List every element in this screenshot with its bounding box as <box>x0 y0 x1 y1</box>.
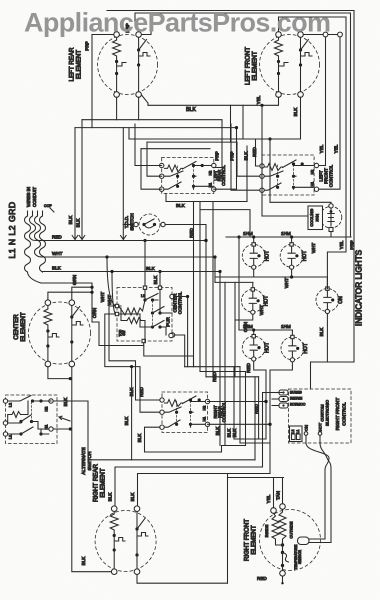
terminal B1 bot <box>329 228 333 232</box>
electrodes DS6 <box>289 339 296 357</box>
wire E4 right to BR <box>136 555 138 569</box>
node dot U4e <box>175 423 178 426</box>
terminal S2 H2 <box>49 399 53 403</box>
wire E3 right branch <box>71 306 73 317</box>
linkage U2 <box>277 165 279 187</box>
control U4 RIGHT REAR CONTROL <box>160 392 227 433</box>
dashed box U5 <box>289 389 352 443</box>
switch blade U1 top <box>183 162 197 169</box>
overload squiggle E5 <box>283 553 289 563</box>
node dot U1a <box>192 164 195 167</box>
wire V x239 row3 <box>238 237 240 330</box>
terminal E2 TL <box>276 32 282 38</box>
resistor E2 <box>275 37 283 60</box>
resistor U4 <box>165 400 183 407</box>
connector P3 <box>279 403 288 408</box>
terminal DS2 top <box>290 243 293 246</box>
wire H y139 <box>129 97 301 139</box>
terminal U4 H2 <box>205 399 209 403</box>
lamp DS2 HOT <box>280 243 308 270</box>
resistor U3 slant <box>119 306 143 315</box>
wire top second run <box>135 13 351 237</box>
resistor E5 outside <box>279 509 286 543</box>
node dot E4a <box>113 534 116 537</box>
terminal block L2L1 <box>290 426 303 442</box>
body B1 <box>320 206 342 228</box>
wire U1 bottom <box>166 194 247 202</box>
linkage U1 <box>177 166 179 186</box>
terminal U4 L1 <box>160 398 164 402</box>
wire U3 H2 out <box>174 296 187 298</box>
node dot U3rB <box>158 270 161 273</box>
node terminal x325 <box>323 32 328 37</box>
lamp DS5 HOT <box>242 335 270 362</box>
wire U3 res2 <box>121 308 145 342</box>
terminal E1 BR <box>136 92 142 98</box>
node dot U4a <box>189 398 192 401</box>
node dot DS1 <box>257 254 260 257</box>
node dot U4b <box>198 398 201 401</box>
body DS4 <box>316 289 339 312</box>
wire V x252 <box>254 377 256 460</box>
wire bundle V x193 <box>193 202 195 367</box>
resistor E5 inside <box>272 513 279 543</box>
riser U3 B <box>159 272 161 287</box>
wire E2 right branch <box>300 37 302 49</box>
node dot U3c <box>151 311 154 314</box>
wire E4 left to BL <box>113 550 115 569</box>
terminal U3 H2 <box>170 294 174 298</box>
wire jog y371 <box>200 371 246 373</box>
switch blade S2 mid <box>8 415 49 429</box>
node dot E2a <box>277 60 280 63</box>
wire DS2 top <box>291 237 293 242</box>
switch blade U3 mid <box>119 289 172 313</box>
terminal U4 L2 <box>160 410 164 414</box>
terminal U1 H1 <box>212 187 216 191</box>
WIRES-TOP <box>85 11 355 363</box>
thermal limit switch E2 left <box>279 62 289 74</box>
wire E2 right to BR <box>300 65 302 92</box>
node dot WHTb <box>110 270 113 273</box>
wire right loop top <box>228 477 284 479</box>
switch blade E4 <box>137 519 145 530</box>
node dot WHTa <box>105 255 108 258</box>
dashed body E1 <box>98 35 158 95</box>
terminal DS6 top <box>291 335 294 338</box>
terminal E5 bottom <box>280 571 286 577</box>
terminal E4 TL <box>111 506 117 512</box>
wire WHT drop a <box>107 257 115 306</box>
node dot E2d <box>299 63 302 66</box>
wire E1 BL PRP run <box>117 97 222 167</box>
wire B y459 <box>88 459 255 461</box>
switch blade U2 mid <box>262 171 296 176</box>
node dot e5bot <box>281 582 283 584</box>
node dot U4H2 <box>264 400 267 403</box>
wire U5 sensor pair A <box>306 435 329 539</box>
node dot E5b <box>281 551 284 554</box>
dashed body E2 <box>260 35 320 95</box>
terminal E5 T2 <box>280 504 286 510</box>
node dot E1a <box>115 60 118 63</box>
terminal E1 TL <box>114 32 120 38</box>
wire H y148 <box>141 148 210 150</box>
wire U4 H2 out <box>208 401 267 403</box>
terminal E1 TR <box>136 32 142 38</box>
node dot U3e <box>151 325 154 328</box>
CONTROLS <box>3 155 351 543</box>
wire bundle V x230 <box>230 105 232 142</box>
wire left-front TL riser <box>279 17 347 252</box>
wire E1 left to BL <box>116 74 118 92</box>
wire BLK center drop <box>72 367 112 572</box>
node dot DS3 <box>257 299 260 302</box>
conduit W1 wires in conduit <box>7 187 77 285</box>
wire U2 L1 feed <box>256 139 260 166</box>
terminal S2 a <box>3 421 7 425</box>
wire left-front TR run <box>303 34 340 36</box>
wire P1 lead <box>272 392 279 394</box>
terminal U3 H1 <box>170 333 174 337</box>
node dot U1e <box>176 185 179 188</box>
wire alt H2 <box>53 401 88 460</box>
wire DS6 top <box>291 330 293 335</box>
wire U5 sensor pair B <box>320 435 331 542</box>
terminal E3 TR <box>69 300 75 306</box>
linkage U4 <box>176 401 178 424</box>
switch S2 ALTERNATE SWITCH <box>3 395 93 475</box>
resistor U2 <box>265 164 283 171</box>
MIDDLE <box>7 97 364 473</box>
switch blade E2 <box>301 40 309 51</box>
wire E2 left to BL <box>278 74 280 92</box>
terminal DS2 bot <box>290 265 294 269</box>
node dot x239 <box>237 235 240 238</box>
dashed box U3 <box>117 288 172 342</box>
terminal DS3 top <box>251 288 254 291</box>
switch blade U3 top <box>143 289 159 311</box>
body DS2 <box>280 244 303 267</box>
terminal E5 T1 <box>271 508 277 514</box>
terminal U2 L2 <box>260 174 264 178</box>
node dot E3b <box>46 344 49 347</box>
node dot U3f <box>158 325 161 328</box>
terminal ON U5 <box>304 432 308 436</box>
terminal DS3 bot <box>251 310 255 314</box>
node dot x131 <box>130 365 133 368</box>
wire E3 right to BR <box>71 342 73 361</box>
wire S2 res <box>8 401 28 423</box>
node dot U3rA <box>143 239 146 242</box>
wire DS3 bot <box>235 314 253 320</box>
node dot E3d <box>70 340 73 343</box>
wire E5 T2 feed <box>282 478 284 504</box>
node dot U2f <box>292 186 295 189</box>
wire U1 L3 feed <box>141 149 162 190</box>
wire DS3 top <box>252 282 254 287</box>
riser U3 A <box>144 241 146 287</box>
wire E3 TL route <box>48 292 92 300</box>
node dot S2e <box>19 432 22 435</box>
node dot U4d <box>189 411 192 414</box>
node dot B1f <box>268 137 271 140</box>
motor B1 COOLING FAN <box>262 137 342 231</box>
conduit wavy L2 <box>40 211 48 272</box>
terminal HOT U5 <box>318 432 322 436</box>
element E3 CENTER ELEMENT <box>13 300 91 367</box>
wire PRP U1 H2 <box>214 167 222 169</box>
thermal limit switch E1 left <box>117 62 126 74</box>
wire H y282 <box>215 281 253 283</box>
dashed box U4 <box>162 392 208 433</box>
conduit wavy GRD <box>25 211 42 283</box>
switch blade U2 top <box>283 160 297 168</box>
wire E3 TR route <box>72 287 92 300</box>
terminal S1 left <box>134 222 138 226</box>
body DS6 <box>281 337 304 360</box>
connector P1 <box>279 390 288 395</box>
node dot S1b <box>153 223 156 226</box>
node dot U4H1 <box>268 423 271 426</box>
terminal U3 top <box>143 286 146 289</box>
switch blade S2 top <box>8 396 51 402</box>
wire U3 Lb route <box>105 314 160 412</box>
thermal limit switch E2 right <box>301 50 313 64</box>
node dot e3bl <box>69 377 72 380</box>
wire H y237 row1 <box>226 236 351 238</box>
wire U3 La route <box>109 306 160 400</box>
terminal U1 L2 <box>160 174 164 178</box>
terminal U1 L3 <box>160 187 164 191</box>
BOTTOM <box>48 286 284 585</box>
terminal U2 L1 <box>260 164 264 168</box>
control U1 LEFT REAR CONTROL <box>160 157 227 193</box>
terminal U3 bottom <box>142 339 145 342</box>
body DS3 <box>241 289 264 312</box>
terminal S1 right <box>161 222 165 226</box>
node dot B1 <box>330 210 333 213</box>
dashed box S2 <box>6 395 58 444</box>
wire H y330 row3 <box>239 329 292 331</box>
wire H y209 <box>200 210 250 237</box>
wire bundle V x225 <box>224 282 226 445</box>
electrodes DS5 <box>250 338 257 356</box>
dashed box U2 <box>262 155 314 195</box>
node dot altH1 <box>69 427 72 430</box>
electrodes DS2 <box>288 247 295 265</box>
electrodes DS3 <box>249 292 256 310</box>
wire U3 bottom <box>144 346 194 367</box>
body DS1 <box>242 244 265 267</box>
wire BLK main run <box>47 271 220 273</box>
wire BLK x247 <box>246 146 248 202</box>
wire DS6 bottom <box>270 362 292 474</box>
node dot E1c <box>137 48 140 51</box>
node dot U2b <box>301 162 304 165</box>
wire YEL end <box>327 252 346 289</box>
wire H y127 <box>75 128 237 139</box>
wire E5 to bottom <box>282 553 284 571</box>
pointer S2 <box>59 416 70 421</box>
terminal S2 L2 <box>3 399 7 403</box>
wire DS1 top <box>253 237 255 242</box>
node dot U3H2 <box>186 295 189 298</box>
switch blade S2 low <box>8 427 49 434</box>
wire E5 T1 feed <box>273 478 275 508</box>
node dot x220 <box>218 270 221 273</box>
wire U3 H1 jog <box>175 335 185 367</box>
wire bundle V x220 <box>219 272 221 446</box>
terminal U1 H2 <box>212 163 216 167</box>
wire DS4 bottom <box>326 314 328 362</box>
terminal E4 BL <box>111 569 117 575</box>
wire jog y366 <box>185 366 240 368</box>
node dot x206 <box>204 239 207 242</box>
wire V x245 <box>245 372 247 446</box>
terminal U3 PUR <box>169 333 173 337</box>
thermal limit switch E3 right <box>72 317 83 341</box>
linkage U1b <box>193 166 195 186</box>
electrodes DS1 <box>250 247 257 265</box>
node dot r1b <box>290 235 293 238</box>
wire DS5 top <box>253 330 255 334</box>
body DS5 <box>242 336 265 359</box>
element E4 RIGHT REAR ELEMENT <box>81 463 156 574</box>
lamp DS4 ON <box>316 287 344 314</box>
node dot DS6 <box>296 347 299 350</box>
resistor U1 <box>165 165 183 172</box>
terminal U2 H2 <box>314 163 318 167</box>
terminal E3 BL <box>45 361 51 367</box>
wire YEL drop H2 <box>317 37 326 166</box>
node dot U2d <box>292 175 295 178</box>
wire YEL drop H1 <box>317 37 341 189</box>
lamp DS1 HOT <box>242 243 270 270</box>
node dot E5c <box>281 564 284 567</box>
node dot U1d <box>192 175 195 178</box>
wire x266 bend <box>234 438 266 440</box>
switch blade E3 <box>72 307 80 318</box>
wire P1 route <box>263 393 284 468</box>
wire E1 right branch <box>138 37 140 49</box>
switch blade U1 mid <box>162 171 196 176</box>
wire PRP U1 H1 <box>214 128 237 190</box>
terminal U4 L3 <box>160 425 164 429</box>
wire E5 join <box>276 543 283 552</box>
node dot x215 <box>213 255 216 258</box>
wire E5 bottom <box>282 576 284 583</box>
node dot E2c <box>299 48 302 51</box>
temperature sensor bulb <box>298 537 310 545</box>
wire V x258 <box>258 377 260 439</box>
thermal limit switch E4 left <box>114 536 125 550</box>
wire bundle V x200 <box>199 202 201 372</box>
wire top stub x135 <box>134 13 136 26</box>
node dot DS2 <box>295 254 298 257</box>
label box B1 <box>308 206 323 230</box>
resistor S2 <box>9 412 23 418</box>
terminal E4 BR <box>134 569 140 575</box>
wire PRP drop x92 <box>91 35 93 128</box>
node dot U2c <box>276 175 279 178</box>
terminal DS4 top <box>326 287 329 290</box>
wire U2 top <box>294 165 315 167</box>
terminal E3 TL <box>45 300 51 306</box>
wire V x234 <box>233 367 235 439</box>
terminal E2 TR <box>298 32 304 38</box>
terminal U2 H1 <box>314 187 318 191</box>
wire P3 lead <box>272 405 279 407</box>
switch blade E1 <box>139 40 147 51</box>
node dot U1c <box>176 175 179 178</box>
terminal S2 H1 <box>49 427 53 431</box>
control U3 CENTER CONTROL <box>115 239 184 367</box>
terminal E1 BL <box>114 92 120 98</box>
element E1 LEFT REAR ELEMENT <box>69 32 158 106</box>
node dot e3tl <box>90 291 93 294</box>
ELEMENTS <box>13 32 331 581</box>
node dot U2a <box>292 162 295 165</box>
wire V x135 <box>135 124 162 166</box>
element E2 LEFT FRONT ELEMENT <box>245 32 320 117</box>
node dot DS4 <box>331 298 334 301</box>
node dot E2b <box>277 72 280 75</box>
node dot U1f <box>192 185 195 188</box>
terminal DS5 bot <box>252 357 256 361</box>
wire bundle V x206 <box>205 225 207 377</box>
node dot r3a <box>252 328 255 331</box>
node dot E4d <box>135 553 138 556</box>
wire BLK long x131 <box>131 367 133 460</box>
wire U2 L3 feed <box>231 124 260 190</box>
wire C y467 <box>115 467 263 506</box>
wire bundle V x235 <box>234 282 236 376</box>
wire U2 L2 feed <box>237 142 260 176</box>
dashed body E3 <box>29 302 91 364</box>
node dot PRPb <box>235 126 238 129</box>
wire H y142 <box>147 141 237 143</box>
terminal U3 Lb <box>115 312 118 315</box>
wire right loop vertical <box>227 474 229 584</box>
node dot U3b <box>151 298 154 301</box>
wire V x240 <box>239 367 241 443</box>
node dot E5a <box>281 543 284 546</box>
wire B1 left <box>262 215 308 217</box>
terminal DS6 bot <box>290 358 294 362</box>
switch blade E1 lower <box>140 93 149 106</box>
dashed body E5 <box>260 510 321 571</box>
wire H y119 <box>82 97 139 119</box>
terminal E2 BR <box>298 92 304 98</box>
dashed box U1 <box>162 157 214 193</box>
switch blade U4 top <box>183 396 197 404</box>
dashed body E4 <box>95 511 156 572</box>
terminal B1 top <box>329 204 333 208</box>
wire E3 left to BL <box>47 346 49 361</box>
node dot E3c <box>70 315 73 318</box>
wire B1 top feed <box>270 139 331 204</box>
node dot E3a <box>46 329 49 332</box>
switch blade U4 mid <box>162 407 193 412</box>
thermal limit switch E1 right <box>139 50 150 64</box>
wire WHT main run <box>44 256 215 258</box>
terminal U3 La <box>115 304 118 307</box>
wire jog y376 <box>206 376 259 378</box>
node dot U3d <box>158 311 161 314</box>
node dot fan262 <box>260 104 263 107</box>
switch blade S1 <box>144 219 155 228</box>
